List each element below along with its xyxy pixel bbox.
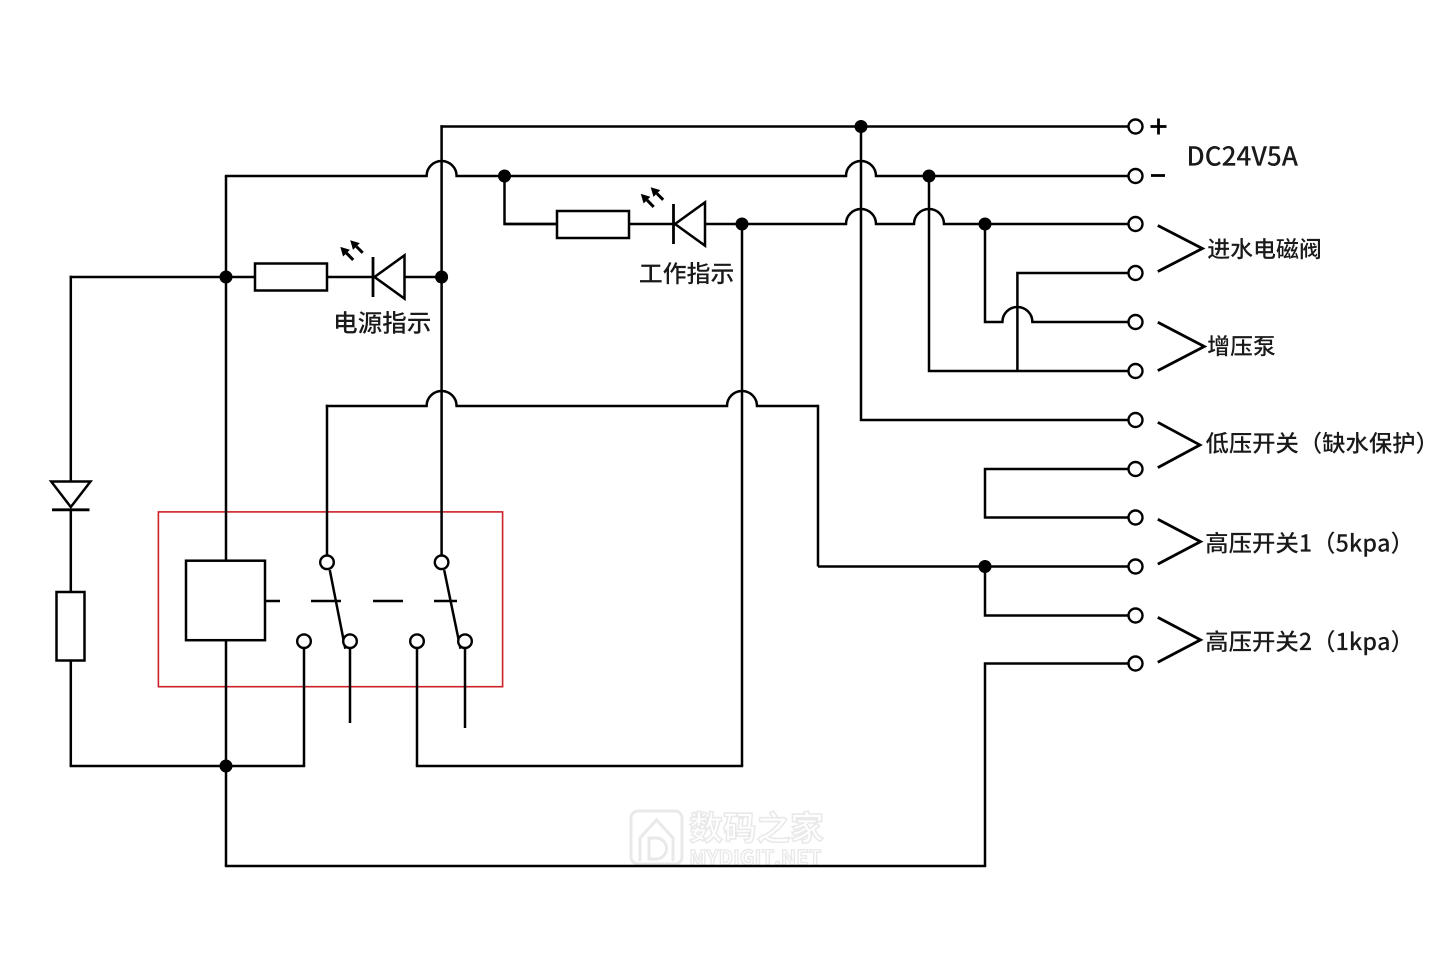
relay outline (red box) xyxy=(158,512,502,687)
switch S1 lever xyxy=(330,570,346,649)
switch S2 lever xyxy=(444,570,460,649)
wire left branch between diode and resistor xyxy=(70,510,73,592)
label 进水电磁阀 xyxy=(1208,238,1320,259)
wire left branch x=70.8 upper xyxy=(70,276,73,482)
switch S1 common contact xyxy=(320,556,334,570)
watermark logo box xyxy=(631,811,682,864)
wire + bus y=126 xyxy=(440,125,1128,128)
node hp switch2 terminal 2 xyxy=(1129,657,1143,671)
label 工作指示 xyxy=(640,262,733,284)
wire pump upper terminal y=322 with hop xyxy=(985,224,1128,322)
+ symbol xyxy=(1151,125,1167,128)
label 增压泵 xyxy=(1208,335,1275,356)
LED D2 arrow a xyxy=(657,194,663,200)
- symbol xyxy=(1151,174,1165,177)
wire S1 NO contact column x=304 down xyxy=(303,648,306,766)
relay coil K1 xyxy=(186,561,265,641)
junction dot at (226,766) xyxy=(220,760,233,773)
wire left branch below resistor xyxy=(70,661,73,767)
node inlet valve terminal 1 xyxy=(1129,217,1143,231)
LED D1 arrow a xyxy=(356,247,362,253)
diode D3 (flyback) triangle xyxy=(51,482,90,508)
wire S2 NC stub x=465 xyxy=(464,648,467,728)
wire switch S1 feed x=327 xyxy=(326,405,329,556)
junction dot at (929,176) xyxy=(923,170,936,183)
relay mech link dash 3 xyxy=(434,600,457,603)
wire hp2 upper terminal y=615.5 xyxy=(985,567,1128,616)
LED D1 arrow b xyxy=(347,253,354,260)
switch S2 contact a xyxy=(410,634,424,648)
label 电源指示 xyxy=(336,311,430,334)
switch S1 contact b xyxy=(343,634,357,648)
LED D1 triangle xyxy=(375,255,405,298)
wire bottom return bus y=866 xyxy=(225,865,986,868)
node pump terminal 1 xyxy=(1129,315,1143,329)
bracket low-pressure switch xyxy=(1158,422,1200,467)
label 高压开关2（1kpa） xyxy=(1207,630,1399,655)
wire hp2 lower terminal y=663.5 down to bottom bus xyxy=(985,664,1128,867)
wire low-pressure upper terminal y=420 xyxy=(861,127,1128,421)
wire bottom-left link y=766 xyxy=(70,765,306,768)
wire hp1 lower terminal y=566.5 xyxy=(818,565,1128,568)
wire S2 NO contact column x=417 down xyxy=(416,648,419,766)
wire stub from junction 504.5 down to y=224 xyxy=(505,176,558,224)
junction dot at (985,224) xyxy=(979,218,992,231)
node - terminal xyxy=(1129,169,1143,183)
junction dot at (742,224) xyxy=(736,218,749,231)
label 低压开关（缺水保护） xyxy=(1206,432,1423,454)
LED D2 cathode bar xyxy=(672,204,675,244)
wire node column x=441 xyxy=(440,125,443,555)
switch S2 common contact xyxy=(435,556,449,570)
wire work-LED row y=224 xyxy=(706,209,1129,224)
bracket hp switch 2 xyxy=(1158,617,1201,662)
resistor R1 xyxy=(255,264,327,291)
wire relay feed bus y=406 with hops xyxy=(326,391,818,406)
bracket inlet valve xyxy=(1158,226,1203,272)
LED D1 cathode bar xyxy=(372,257,375,297)
node inlet valve terminal 2 xyxy=(1129,266,1143,280)
junction dot at (861,126) xyxy=(855,120,868,133)
node pump terminal 2 xyxy=(1129,364,1143,378)
wire U-link low-pressure lower to hp1 upper xyxy=(985,469,1128,518)
LED D2 arrow b xyxy=(647,200,654,207)
watermark logo house xyxy=(640,820,673,861)
wire relay coil column x=226 upper xyxy=(225,176,228,561)
wire resistor R1 to LED D1 xyxy=(327,276,372,279)
node hp switch1 terminal 2 xyxy=(1129,560,1143,574)
watermark logo D xyxy=(649,838,667,859)
node + terminal xyxy=(1129,120,1143,134)
node hp switch2 terminal 1 xyxy=(1129,609,1143,623)
label 高压开关1（5kpa） xyxy=(1207,532,1399,557)
watermark MYDIGIT.NET xyxy=(691,850,821,866)
node hp switch1 terminal 1 xyxy=(1129,511,1143,525)
wire pump lower terminal y=371 from minus bus xyxy=(929,176,1128,371)
node low-pressure switch terminal 1 xyxy=(1129,413,1143,427)
wire x=742 column LED junction down to relay contact bus xyxy=(741,224,744,766)
diode D3 cathode bar xyxy=(52,508,90,511)
relay mech link dash 1 xyxy=(311,600,341,603)
LED D2 triangle xyxy=(675,202,705,245)
switch S1 contact a xyxy=(297,634,311,648)
wire power-LED row y=277 left segment xyxy=(70,276,255,279)
watermark 数码之家 xyxy=(690,811,823,843)
resistor R3 (vertical) xyxy=(57,592,85,661)
wire y=766 link from x=417 to x=742 xyxy=(416,765,743,768)
wire - bus y=176 xyxy=(225,161,1128,176)
wire inlet-valve lower terminal y=273 xyxy=(1017,273,1128,371)
wire S1 NC stub x=350 xyxy=(349,648,352,723)
label DC24V5A xyxy=(1189,146,1298,166)
switch S2 contact b xyxy=(458,634,472,648)
junction dot at (441.6,277) xyxy=(435,271,448,284)
bracket pump xyxy=(1158,322,1205,370)
wire work row right of resistor R2 xyxy=(629,223,673,226)
resistor R2 xyxy=(557,211,629,238)
relay mech link dash 2 xyxy=(373,600,403,603)
relay coil stub xyxy=(265,600,280,603)
node low-pressure switch terminal 2 xyxy=(1129,462,1143,476)
wire LED D1 to node x=441 xyxy=(404,276,442,279)
junction dot at (985,566.5) xyxy=(979,560,992,573)
junction dot at (504.5,176) xyxy=(498,170,511,183)
wire relay coil column x=226 lower xyxy=(225,640,228,866)
wire right branch x=818 down to y=566.5 xyxy=(817,405,820,567)
bracket hp switch 1 xyxy=(1158,519,1201,564)
wire work row left of resistor R2 xyxy=(505,223,558,226)
junction dot at (226,277) xyxy=(220,271,233,284)
